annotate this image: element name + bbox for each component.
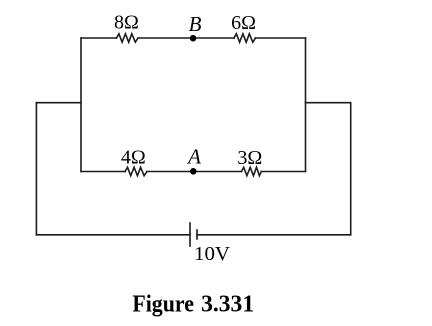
wire outer left vertical: [35, 103, 37, 235]
resistor R2 6Ω zigzag: [234, 34, 256, 42]
svg-text:3.331: 3.331: [201, 291, 254, 317]
wire inner left vertical: [80, 38, 82, 172]
wire middle branch middle segment: [147, 171, 242, 173]
wire top branch right segment: [256, 37, 306, 39]
svg-text:Figure: Figure: [132, 291, 194, 317]
battery V1 short plate: [196, 230, 198, 239]
wire middle branch left segment: [81, 171, 125, 173]
wire left stub: [36, 102, 81, 104]
svg-text:4Ω: 4Ω: [121, 146, 146, 168]
resistor R4 3Ω zigzag: [242, 167, 262, 175]
wire top branch left segment: [81, 37, 117, 39]
svg-text:8Ω: 8Ω: [114, 12, 139, 34]
wire middle branch right segment: [261, 171, 305, 173]
wire inner right vertical: [305, 38, 307, 172]
svg-text:A: A: [186, 145, 201, 169]
wire outer right vertical: [350, 103, 352, 235]
resistor R1 8Ω zigzag: [117, 34, 139, 42]
wire right stub: [306, 102, 351, 104]
battery V1 long plate: [189, 223, 191, 246]
svg-text:6Ω: 6Ω: [231, 12, 256, 34]
wire bottom left segment: [36, 234, 190, 236]
node A junction dot: [190, 168, 197, 175]
wire top branch middle segment: [138, 37, 234, 39]
resistor R3 4Ω zigzag: [125, 167, 147, 175]
node B junction dot: [190, 35, 197, 42]
svg-text:10V: 10V: [194, 243, 231, 265]
wire bottom right segment: [197, 234, 351, 236]
svg-text:B: B: [189, 12, 202, 36]
svg-text:3Ω: 3Ω: [237, 147, 262, 169]
